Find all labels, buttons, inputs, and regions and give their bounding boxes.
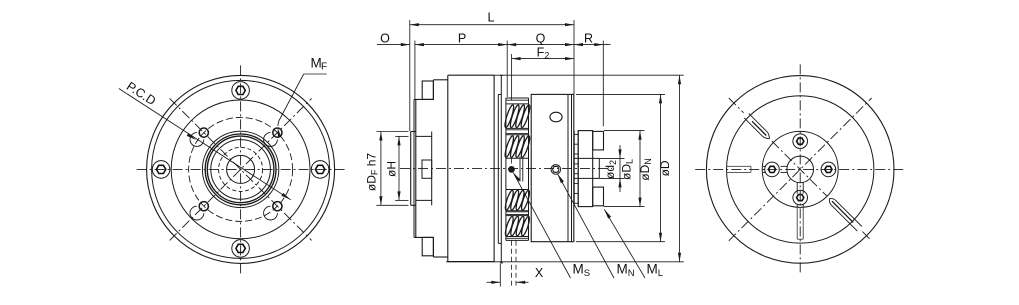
left hub spigot face (410, 132, 412, 206)
svg-text:Q: Q (536, 32, 546, 46)
wire centerline of section view (400, 167, 612, 169)
right hub clamp screw bottom (593, 187, 604, 206)
left view inner circle (227, 155, 255, 183)
right hub slit ring (573, 131, 575, 207)
screw MS axis hidden line upper (511, 159, 513, 166)
left view tapped hole MF 1 (199, 128, 208, 137)
left view circle 35 (205, 134, 276, 205)
dim DF h7 (380, 132, 382, 206)
right view centerline horizontal (695, 168, 905, 170)
right view centerline vertical (799, 64, 801, 274)
right view clamp screw S (793, 190, 808, 205)
left hub spigot outline (411, 131, 416, 133)
right hub body (578, 131, 593, 207)
spacer lines 1 (507, 129, 529, 131)
element pack end caps (506, 97, 529, 99)
left hub bore H lines (416, 135, 432, 137)
dim H (398, 136, 400, 200)
element clamp plate (500, 75, 502, 263)
screw MN head (551, 165, 561, 175)
ext line hub end (602, 41, 604, 127)
left view outer circle (147, 75, 335, 263)
center spacer lines in pack gap (519, 157, 521, 182)
left view flange circle (171, 100, 310, 239)
right view plate circle (727, 96, 874, 243)
svg-text:R: R (584, 32, 593, 46)
left disc outline (448, 74, 494, 76)
svg-text:O: O (380, 32, 390, 46)
spring band 1 (506, 103, 529, 105)
spring band 4 (506, 215, 529, 217)
spring band 2 (506, 134, 529, 136)
left disc face line (447, 75, 449, 261)
right view slit S (796, 183, 798, 194)
right view slit slot SE (831, 205, 857, 231)
dim L extension left (409, 20, 411, 131)
svg-text:øD: øD (658, 160, 672, 176)
right hub bore end face (598, 158, 600, 178)
svg-text:øH: øH (385, 161, 399, 177)
right view clamp screw W (765, 162, 780, 177)
dim Q (507, 43, 516, 46)
right view slit W (727, 165, 751, 167)
dim R (574, 44, 611, 46)
left view cap screw S (232, 240, 250, 258)
svg-text:X: X (535, 266, 544, 280)
ext line pack left (506, 41, 508, 97)
element pack left edge (505, 98, 507, 240)
dim DL (604, 130, 645, 132)
left hub flange outline (414, 98, 433, 100)
left hub flange face double line (413, 99, 415, 237)
svg-text:L: L (488, 11, 495, 25)
dim P (415, 44, 507, 46)
left hub collar step (432, 80, 434, 100)
right view clamp screw E (821, 162, 836, 177)
left hub center pocket (422, 160, 432, 178)
right view clamp screw N (793, 134, 808, 149)
leader MS (513, 173, 520, 182)
dim DN (576, 93, 665, 95)
right view diagonal centerlines (729, 98, 744, 113)
left view bore circle (211, 140, 271, 200)
dim L (410, 24, 574, 26)
left view tapped hole MF 2 (273, 128, 282, 137)
right view hub circle (762, 131, 838, 207)
dim H extension lines (395, 135, 408, 137)
left view tapped hole MF 3 (273, 202, 282, 211)
PCD leader line (119, 89, 291, 200)
left view hidden circle (219, 147, 263, 191)
right hub clamp screw top ML (593, 131, 604, 150)
left view cap screw N (232, 82, 250, 100)
screw MS head (509, 167, 515, 173)
svg-text:F: F (321, 62, 327, 73)
dim X (499, 264, 501, 287)
left view tapped hole MF 4 (199, 202, 208, 211)
dim F2 (511, 54, 513, 100)
right plate recess lines (567, 94, 569, 241)
screw head top on left flange (422, 81, 433, 99)
screw head bottom on left flange (422, 237, 433, 255)
left view centerline vertical (240, 65, 242, 273)
element pack right edge (528, 98, 530, 240)
ext line flange face (414, 41, 416, 99)
dim d2 (619, 145, 621, 192)
left view centerline horizontal (137, 168, 345, 170)
left view spigot circle (202, 131, 278, 207)
MF label underline and leader (304, 73, 327, 75)
right hub bore d2 lines (574, 157, 600, 159)
left view circle 33 (207, 136, 274, 203)
right plate outline (531, 94, 574, 241)
left view cap screw W (152, 161, 170, 179)
left view rim circle (152, 80, 330, 258)
access hole ellipse in right plate (550, 112, 562, 122)
svg-text:P: P (458, 32, 466, 46)
leader ML (604, 209, 611, 218)
dim DF h7 extension lines (376, 131, 408, 133)
spacer lines 2 (507, 211, 529, 213)
right view outer circle (706, 76, 894, 264)
left view PCD circle (189, 117, 293, 221)
dim O (377, 44, 410, 46)
dim D (494, 74, 684, 76)
leader MN (557, 174, 564, 184)
left view diagonal centerlines (170, 98, 312, 240)
right view bore circle (787, 156, 814, 183)
spring band 3 (506, 189, 529, 191)
right view slit slot NW (749, 113, 767, 131)
left hub recess end face (431, 132, 433, 206)
ext line plate right face (573, 20, 575, 94)
left view cap screw E (311, 161, 329, 179)
